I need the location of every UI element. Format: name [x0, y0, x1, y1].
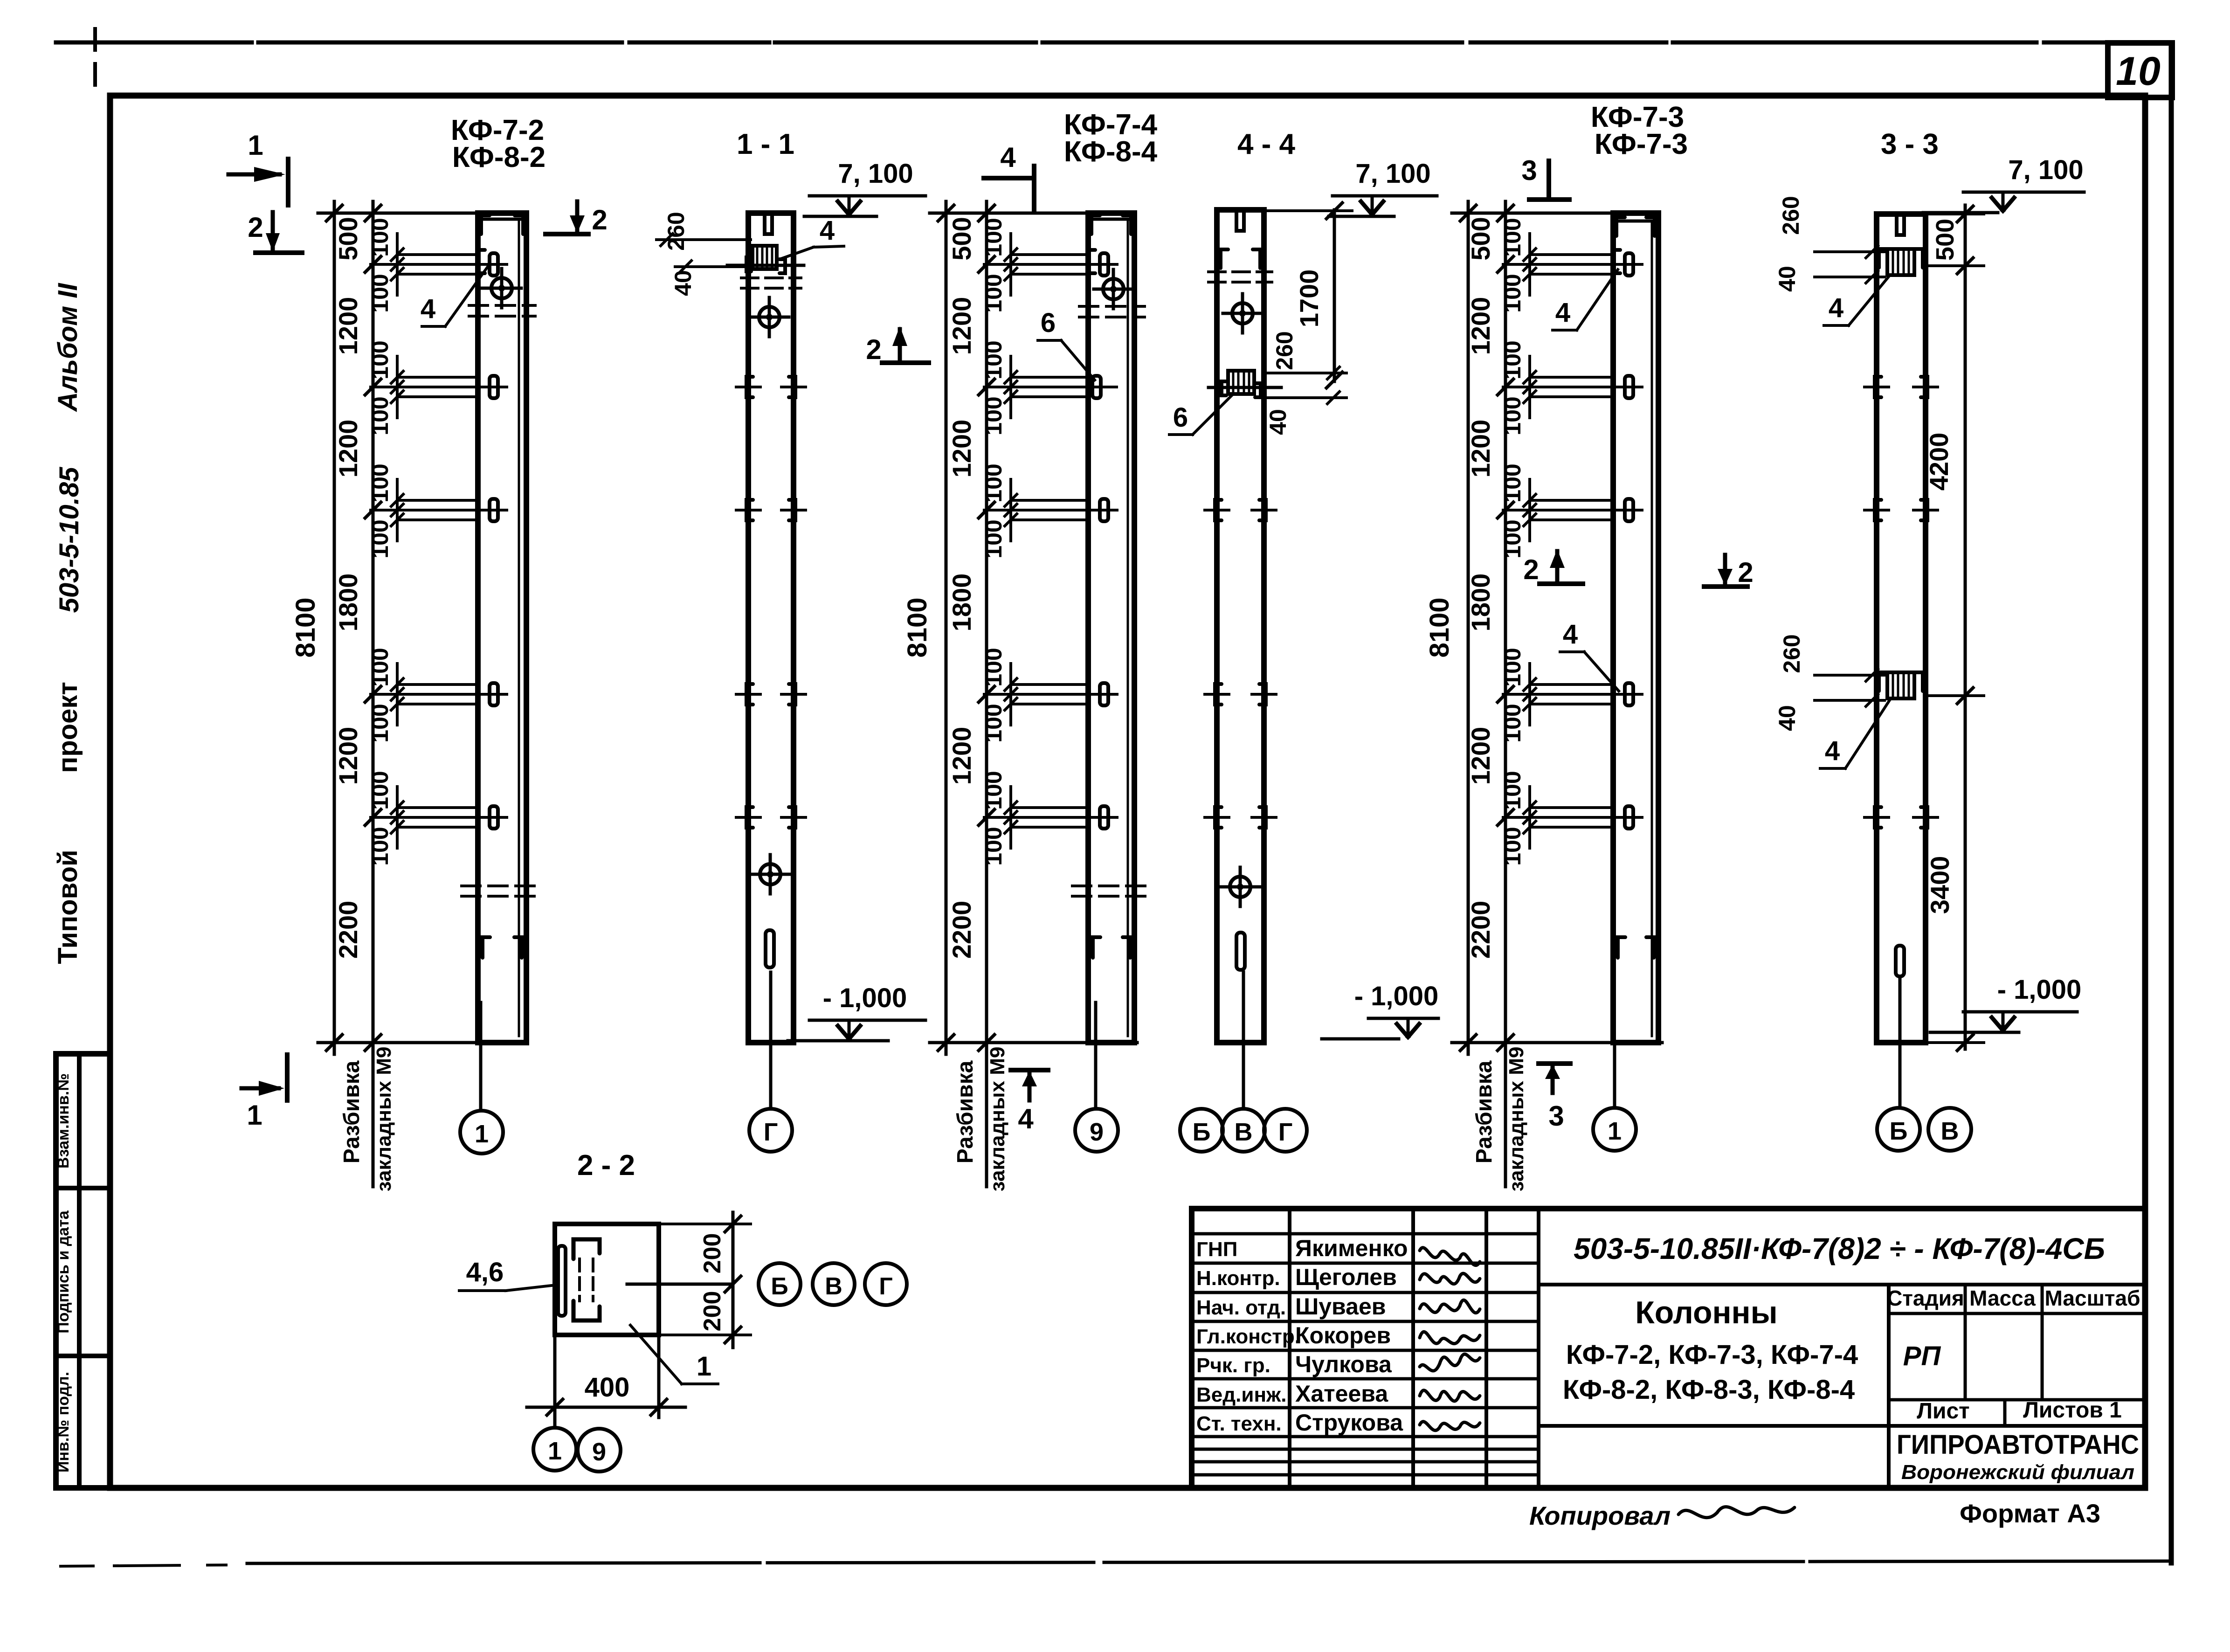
svg-text:9: 9: [592, 1438, 606, 1466]
svg-text:4: 4: [1018, 1103, 1034, 1134]
target mark lower: [767, 871, 773, 878]
column axis line: [769, 972, 773, 1109]
pin plates level 5900: [1215, 807, 1222, 828]
sheet top edge dashed line: [56, 41, 2108, 45]
svg-text:400: 400: [585, 1372, 630, 1403]
embedded plate M4: [478, 693, 507, 696]
pin plates level 4700: [746, 684, 753, 705]
svg-text:2 - 2: 2 - 2: [577, 1149, 635, 1182]
svg-text:2: 2: [1738, 557, 1753, 588]
svg-text:3: 3: [1521, 155, 1537, 186]
svg-text:100: 100: [980, 396, 1007, 435]
top extension line: [1452, 212, 1613, 215]
svg-text:- 1,000: - 1,000: [823, 983, 907, 1013]
svg-text:1200: 1200: [333, 727, 363, 785]
embedded plate M3: [478, 509, 507, 511]
100 offset dimensions: [396, 234, 399, 295]
dimension line 8100 total: [1467, 201, 1470, 1054]
svg-text:3: 3: [1548, 1100, 1564, 1132]
svg-text:4200: 4200: [1924, 433, 1954, 491]
svg-text:1: 1: [697, 1351, 711, 1382]
grid circle Б: [759, 1263, 801, 1305]
sheet row lines: [2003, 1400, 2007, 1426]
svg-text:Взам.инв.№: Взам.инв.№: [55, 1073, 72, 1168]
svg-text:100: 100: [1499, 274, 1526, 312]
svg-text:1200: 1200: [947, 727, 976, 785]
column axis line: [479, 1002, 483, 1111]
svg-text:4: 4: [820, 215, 835, 246]
svg-text:8100: 8100: [290, 597, 321, 657]
svg-text:Типовой: Типовой: [53, 850, 83, 964]
svg-text:2: 2: [248, 212, 263, 243]
svg-text:ГНП: ГНП: [1196, 1238, 1237, 1261]
embedded target mark: [498, 285, 505, 291]
svg-text:500: 500: [333, 217, 363, 260]
svg-text:4,6: 4,6: [466, 1257, 504, 1287]
svg-text:40: 40: [1265, 409, 1291, 435]
svg-text:Масштаб: Масштаб: [2045, 1286, 2140, 1310]
svg-text:закладных М9: закладных М9: [986, 1047, 1009, 1192]
svg-text:1200: 1200: [1466, 420, 1495, 478]
pin plates level 5900: [1875, 807, 1881, 828]
embedded plate with label 6: [1092, 376, 1101, 398]
title block row lines left part: [1192, 1232, 1539, 1236]
channel dashed lines: [578, 1259, 581, 1301]
svg-text:7, 100: 7, 100: [2008, 155, 2083, 185]
title block outer frame: [1192, 1209, 2145, 1488]
page number box: [2108, 43, 2172, 97]
svg-text:100: 100: [980, 648, 1007, 686]
svg-text:100: 100: [980, 340, 1007, 379]
column top inner edge: [1616, 220, 1655, 223]
section mark 2 right of column 1: [545, 232, 588, 236]
svg-text:100: 100: [367, 274, 393, 312]
svg-text:проект: проект: [53, 682, 83, 773]
svg-text:100: 100: [980, 827, 1007, 865]
column section 4-4 outline: [1217, 210, 1264, 1043]
svg-text:6: 6: [1041, 308, 1056, 338]
svg-text:Б: Б: [771, 1273, 788, 1300]
svg-text:8100: 8100: [1424, 597, 1455, 657]
svg-text:Альбом II: Альбом II: [53, 283, 83, 413]
embedded target mark: [1110, 286, 1117, 292]
grid circle Б: [1877, 1108, 1920, 1151]
anchor slot: [766, 930, 774, 968]
svg-text:4 - 4: 4 - 4: [1237, 128, 1296, 160]
svg-text:200: 200: [699, 1233, 726, 1274]
svg-text:1800: 1800: [947, 574, 976, 632]
svg-text:1700: 1700: [1294, 270, 1324, 328]
svg-text:Колонны: Колонны: [1635, 1295, 1777, 1330]
svg-text:1200: 1200: [1466, 727, 1495, 785]
grid circle Б: [1180, 1109, 1223, 1152]
svg-text:Листов 1: Листов 1: [2023, 1398, 2122, 1423]
grid circle 9: [1075, 1109, 1118, 1152]
svg-text:1 - 1: 1 - 1: [737, 128, 794, 160]
svg-text:9: 9: [1090, 1118, 1104, 1146]
svg-text:1200: 1200: [947, 297, 976, 355]
pin plates level 2900: [1875, 500, 1881, 520]
svg-text:Якименко: Якименко: [1295, 1235, 1408, 1261]
svg-text:2: 2: [1523, 554, 1539, 585]
svg-text:100: 100: [1499, 340, 1526, 379]
embedded plate M2: [478, 386, 507, 388]
dimension 260/40 top left: [1815, 250, 1885, 253]
svg-text:Гл.констр.: Гл.констр.: [1196, 1325, 1300, 1348]
grid circle В: [1222, 1109, 1265, 1152]
svg-text:260: 260: [663, 212, 689, 250]
top extension line: [318, 212, 478, 215]
top tick: [1236, 212, 1244, 231]
svg-text:Г: Г: [764, 1118, 778, 1146]
top tick: [765, 215, 772, 234]
svg-text:6: 6: [1173, 402, 1188, 433]
svg-text:1200: 1200: [947, 420, 976, 478]
sheet left outer dashed stub: [93, 29, 97, 91]
dimension 260/40 left of plate: [656, 238, 751, 241]
dimension 1700: [1333, 210, 1336, 381]
svg-text:Б: Б: [1890, 1117, 1908, 1145]
embedded plate level 5900: [1088, 816, 1117, 819]
column axis line: [1242, 972, 1245, 1109]
svg-text:ГИПРОАВТОТРАНС: ГИПРОАВТОТРАНС: [1897, 1430, 2139, 1460]
svg-text:КФ-7-2, КФ-7-3, КФ-7-4: КФ-7-2, КФ-7-3, КФ-7-4: [1566, 1340, 1858, 1370]
section mark 1 bottom: [242, 1086, 279, 1091]
embedded plate M5: [478, 816, 507, 819]
stage table lines: [1889, 1312, 2145, 1315]
svg-text:100: 100: [367, 519, 393, 558]
svg-text:2: 2: [592, 204, 607, 235]
dimension chain line: [1504, 201, 1507, 1187]
svg-text:100: 100: [1499, 218, 1526, 256]
svg-text:закладных М9: закладных М9: [373, 1047, 395, 1192]
svg-text:3 - 3: 3 - 3: [1881, 128, 1939, 160]
dimension line 8100 total: [945, 201, 948, 1054]
dimension line 8100 total: [333, 201, 336, 1054]
svg-text:Масса: Масса: [1969, 1286, 2036, 1310]
joint dashed lines: [741, 276, 801, 279]
svg-text:Щеголев: Щеголев: [1295, 1264, 1397, 1290]
bottom joint dashed lines: [1072, 885, 1147, 887]
bottom corner plates: [483, 937, 490, 958]
grid circle Г: [749, 1109, 792, 1152]
svg-text:Разбивка: Разбивка: [953, 1060, 978, 1163]
svg-text:Шуваев: Шуваев: [1295, 1293, 1386, 1320]
joint dashed lines: [1079, 305, 1145, 308]
svg-text:7, 100: 7, 100: [1355, 159, 1430, 189]
drawing frame: [110, 96, 2145, 1488]
svg-text:8100: 8100: [902, 597, 932, 657]
svg-text:2200: 2200: [947, 901, 976, 959]
svg-text:200: 200: [699, 1291, 726, 1332]
svg-text:4: 4: [1563, 619, 1578, 650]
pin plates level 4700: [1215, 684, 1222, 705]
svg-text:500: 500: [1931, 219, 1959, 261]
svg-text:100: 100: [367, 396, 393, 435]
svg-text:- 1,000: - 1,000: [1354, 981, 1439, 1011]
embedded plate level 4700 with label 4: [1613, 693, 1642, 696]
target mark: [766, 314, 773, 320]
svg-text:100: 100: [367, 771, 393, 809]
svg-text:Струкова: Струкова: [1295, 1410, 1403, 1436]
embedded plate level 2900: [1613, 509, 1642, 511]
grid circle В: [813, 1263, 855, 1305]
pin plates level 5900: [746, 807, 753, 828]
svg-text:1800: 1800: [1466, 574, 1495, 632]
svg-text:100: 100: [367, 463, 393, 502]
svg-text:1800: 1800: [333, 574, 363, 632]
pin plates level 1700: [746, 377, 753, 397]
svg-text:КФ-8-2, КФ-8-3, КФ-8-4: КФ-8-2, КФ-8-3, КФ-8-4: [1563, 1375, 1855, 1405]
svg-text:Г: Г: [1278, 1118, 1293, 1146]
dimension chain line: [985, 201, 988, 1187]
bottom corner plates: [1093, 937, 1100, 958]
svg-text:100: 100: [1499, 771, 1526, 809]
svg-text:1200: 1200: [1466, 297, 1495, 355]
target mark lower: [1237, 884, 1243, 890]
dimension 260/40 right of plate: [1266, 372, 1346, 374]
svg-text:1: 1: [1608, 1117, 1622, 1145]
title block column lines: [1288, 1209, 1291, 1488]
column section 1-1 outline: [748, 213, 794, 1043]
svg-text:100: 100: [1499, 519, 1526, 558]
column КФ-7-3 elevation outline: [1613, 213, 1658, 1043]
svg-text:100: 100: [1499, 704, 1526, 742]
bottom extension line: [930, 1041, 1137, 1044]
svg-text:4: 4: [421, 294, 435, 324]
svg-text:В: В: [1941, 1117, 1959, 1145]
svg-text:100: 100: [980, 704, 1007, 742]
svg-text:2200: 2200: [333, 901, 363, 959]
anchor slot: [1236, 933, 1245, 970]
svg-text:Б: Б: [1193, 1118, 1211, 1146]
section mark 2 between 1-1 and next: [882, 360, 929, 365]
top extension line: [930, 212, 1088, 215]
100 offset dimensions: [1009, 234, 1012, 295]
grid circle 1: [460, 1111, 503, 1154]
svg-text:2: 2: [866, 334, 881, 365]
grid circle Г: [1264, 1109, 1307, 1152]
svg-text:1200: 1200: [333, 297, 363, 355]
joint dashed lines: [1208, 270, 1272, 273]
svg-text:503-5-10.85II·КФ-7(8)2 ÷ -: 503-5-10.85II·КФ-7(8)2 ÷ - КФ-7(8)-4СБ: [1574, 1232, 2105, 1265]
grid circle 9: [578, 1429, 621, 1472]
channel top bracket: [573, 1239, 600, 1259]
center line: [627, 1283, 733, 1286]
svg-text:4: 4: [1829, 293, 1843, 323]
dimension 200/200 right: [732, 1212, 735, 1348]
svg-text:503-5-10.85: 503-5-10.85: [54, 467, 84, 613]
sheet bottom edge line: [247, 1561, 2171, 1563]
dimension 400 bottom: [553, 1338, 557, 1425]
embedded plate level 500 with label 4: [1613, 263, 1642, 266]
svg-text:Стадия: Стадия: [1887, 1286, 1964, 1310]
svg-text:500: 500: [947, 217, 976, 260]
column top inner edge: [481, 218, 523, 221]
pin plates level 1700: [1875, 377, 1881, 397]
svg-text:КФ-8-4: КФ-8-4: [1064, 136, 1158, 168]
svg-text:7, 100: 7, 100: [838, 159, 913, 189]
svg-text:Подпись и дата: Подпись и дата: [55, 1210, 72, 1334]
svg-text:1: 1: [475, 1120, 489, 1148]
embedded plate: [1088, 263, 1117, 266]
svg-text:Вед.инж.: Вед.инж.: [1196, 1383, 1286, 1406]
svg-text:100: 100: [367, 704, 393, 742]
joint dashed lines: [469, 304, 535, 307]
svg-text:1: 1: [248, 130, 263, 161]
section mark 2 mid-left: [1540, 581, 1583, 586]
embedded plate M1: [478, 263, 507, 266]
designation cell line: [1539, 1283, 2145, 1286]
grid circle 1: [1593, 1108, 1636, 1151]
svg-text:1: 1: [247, 1099, 262, 1131]
svg-text:260: 260: [1779, 634, 1805, 673]
svg-text:- 1,000: - 1,000: [1997, 975, 2082, 1005]
pin plates level 2900: [746, 500, 753, 520]
svg-text:Разбивка: Разбивка: [1472, 1060, 1497, 1163]
section mark 2 mid-right: [1704, 584, 1747, 589]
grid circle Г: [865, 1263, 907, 1305]
svg-text:Копировал: Копировал: [1529, 1501, 1671, 1530]
dimension chain line: [372, 201, 375, 1187]
dimension 260/40 mid left: [1815, 674, 1885, 677]
svg-text:100: 100: [367, 827, 393, 865]
embedded plate level 1700: [1613, 386, 1642, 388]
svg-text:Нач. отд.: Нач. отд.: [1196, 1296, 1286, 1319]
svg-text:100: 100: [367, 218, 393, 256]
embedded plate level 5900: [1613, 816, 1642, 819]
embedded plate level 2900: [1088, 509, 1117, 511]
bottom extension line: [1452, 1041, 1662, 1044]
embedded plate level 4700: [1088, 693, 1117, 696]
dimension chain 500-4200-3400 right: [1964, 205, 1967, 1049]
svg-text:40: 40: [1774, 705, 1800, 731]
svg-text:260: 260: [1778, 196, 1804, 235]
svg-text:100: 100: [980, 463, 1007, 502]
svg-text:500: 500: [1466, 217, 1495, 260]
svg-text:Хатеева: Хатеева: [1295, 1381, 1388, 1407]
svg-text:Инв.№ подл.: Инв.№ подл.: [55, 1372, 72, 1472]
svg-text:4: 4: [1825, 736, 1840, 766]
channel bottom bracket: [573, 1301, 600, 1320]
svg-text:Чулкова: Чулкова: [1295, 1351, 1392, 1377]
svg-text:Г: Г: [879, 1273, 892, 1300]
column section 3-3 outline: [1877, 214, 1926, 1043]
svg-text:100: 100: [1499, 396, 1526, 435]
svg-text:100: 100: [1499, 648, 1526, 686]
section mark 4 bottom: [1011, 1068, 1048, 1072]
sheet right outer edge line: [2169, 43, 2174, 1563]
section mark 1 top: [228, 173, 280, 177]
svg-text:КФ-8-2: КФ-8-2: [452, 141, 545, 173]
svg-text:3400: 3400: [1925, 856, 1954, 914]
left margin stamp table: [56, 1054, 110, 1488]
svg-text:В: В: [825, 1273, 842, 1300]
svg-text:100: 100: [367, 340, 393, 379]
svg-text:Ст. техн.: Ст. техн.: [1196, 1412, 1282, 1435]
svg-text:В: В: [1235, 1118, 1253, 1146]
grid circle 1: [533, 1428, 576, 1471]
svg-text:Разбивка: Разбивка: [339, 1060, 364, 1163]
column axis line: [1899, 979, 1902, 1108]
anchor slot: [1896, 946, 1904, 976]
column axis line: [1094, 1002, 1098, 1109]
target mark: [1239, 310, 1246, 317]
bottom joint dashed lines: [462, 885, 536, 887]
hatched plate mid with corner angles: [1887, 672, 1914, 698]
sheet bottom-left dashed edge: [61, 1565, 247, 1566]
svg-text:1200: 1200: [333, 420, 363, 478]
svg-text:4: 4: [1555, 297, 1570, 328]
column axis line: [1613, 1043, 1616, 1108]
svg-text:КФ-7-3: КФ-7-3: [1595, 128, 1688, 160]
top corner angles: [1221, 249, 1228, 268]
svg-text:Н.контр.: Н.контр.: [1196, 1267, 1280, 1290]
svg-text:закладных М9: закладных М9: [1505, 1047, 1528, 1192]
hatched plate with label 6: [1228, 371, 1254, 394]
column КФ-7-4 elevation outline: [1088, 213, 1134, 1043]
name cell lines: [1539, 1424, 2145, 1428]
column КФ-7-2 elevation outline: [478, 213, 526, 1043]
svg-text:260: 260: [1271, 331, 1298, 370]
svg-text:40: 40: [670, 270, 696, 296]
svg-text:РП: РП: [1903, 1341, 1941, 1371]
svg-text:100: 100: [367, 648, 393, 686]
top tick: [1897, 216, 1904, 235]
svg-text:Кокорев: Кокорев: [1295, 1322, 1391, 1348]
svg-text:Лист: Лист: [1917, 1399, 1969, 1424]
svg-text:Воронежский филиал: Воронежский филиал: [1901, 1461, 2134, 1484]
svg-text:Формат А3: Формат А3: [1960, 1499, 2100, 1528]
svg-text:100: 100: [1499, 463, 1526, 502]
bottom corner plates: [1618, 937, 1625, 958]
100 offset dimensions: [1528, 234, 1531, 295]
bottom extension line: [318, 1041, 527, 1044]
svg-text:40: 40: [1774, 266, 1800, 292]
section 2-2 body: [555, 1224, 659, 1335]
svg-text:4: 4: [1000, 142, 1016, 173]
svg-text:10: 10: [2116, 49, 2161, 94]
svg-text:100: 100: [980, 771, 1007, 809]
svg-text:100: 100: [980, 274, 1007, 312]
svg-text:2200: 2200: [1466, 901, 1495, 959]
pin plates level 2900: [1215, 500, 1222, 520]
column top inner edge: [1091, 218, 1131, 221]
svg-text:1: 1: [548, 1437, 562, 1465]
svg-text:100: 100: [980, 218, 1007, 256]
svg-text:100: 100: [1499, 827, 1526, 865]
grid circle В: [1928, 1108, 1971, 1151]
hatched plate with label 4: [753, 246, 777, 269]
section mark 3 bottom: [1539, 1061, 1570, 1066]
svg-text:100: 100: [980, 519, 1007, 558]
svg-text:Рчк. гр.: Рчк. гр.: [1196, 1354, 1270, 1377]
hatched plate top with corner angles: [1887, 249, 1914, 275]
edge slot: [558, 1246, 566, 1316]
